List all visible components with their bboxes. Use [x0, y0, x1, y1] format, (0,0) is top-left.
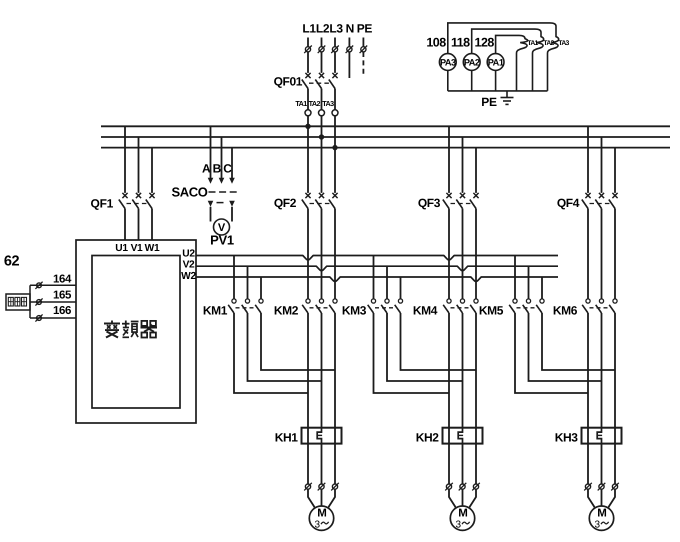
KM4 mechanical linkage (dashed) [451, 307, 472, 309]
circuit breaker QF3 pole 2 [462, 137, 464, 193]
KM6 mechanical linkage (dashed) [590, 307, 611, 309]
terminal L2 [319, 47, 324, 52]
svg-text:KM4: KM4 [413, 304, 438, 318]
voltmeter PV1 [214, 219, 230, 235]
wire N below terminal [348, 52, 350, 78]
ammeter loop 3 (PA1/TA1) top [496, 35, 519, 53]
motor 2 terminal 2 [460, 484, 465, 489]
wire KM1 pole 3 output [261, 313, 335, 370]
wire KM1 pole 1 output [234, 313, 308, 393]
svg-text:62: 62 [4, 254, 20, 270]
circuit breaker QF2 pole 1 [307, 126, 309, 193]
circuit breaker QF2 pole 3 [334, 148, 336, 193]
svg-text:TA3: TA3 [558, 40, 569, 47]
current transformer TA3 [332, 110, 338, 116]
circuit breaker QF01 pole 1 [307, 52, 309, 73]
wire motor 3 phase 3 lead [608, 489, 615, 507]
wire KH3 pole 3 passthrough [614, 428, 616, 444]
svg-text:QF2: QF2 [274, 196, 297, 210]
wire PA2 to bottom bus [471, 70, 473, 91]
svg-text:165: 165 [53, 290, 72, 302]
ammeter loop 1 (PA3/TA3) top [448, 23, 550, 54]
thermal relay KH1 heater element [317, 428, 321, 444]
wire PA1 to bottom bus [495, 70, 497, 91]
svg-text:N: N [346, 22, 355, 36]
contactor KM3 pole 1 [373, 256, 375, 299]
frequency converter inner box [92, 256, 180, 409]
contactor KM4 pole 2 [460, 299, 464, 303]
svg-text:164: 164 [53, 274, 72, 286]
terminal PE [361, 47, 366, 52]
contactor KM1 pole 2 [247, 266, 249, 299]
svg-text:M: M [458, 508, 468, 520]
ammeter PA3 [439, 54, 456, 71]
circuit breaker QF3 pole 1 [448, 126, 450, 193]
bus L1 [101, 125, 670, 127]
ammeter PA1 [487, 54, 504, 71]
junction dot L1 feed [305, 124, 310, 129]
QF2 mechanical linkage (dashed) [310, 203, 331, 205]
svg-text:118: 118 [451, 36, 470, 50]
svg-text:TA1: TA1 [527, 40, 538, 47]
pressure gauge text [8, 297, 13, 306]
svg-text:3: 3 [315, 520, 321, 531]
SACO output linkage (dashed) [217, 202, 228, 204]
wire motor 2 phase 1 lead [449, 489, 456, 507]
thermal relay KH3 box [582, 428, 622, 444]
svg-text:KM1: KM1 [203, 304, 228, 318]
svg-text:M: M [317, 508, 327, 520]
svg-text:U1: U1 [115, 243, 128, 254]
frequency converter text 变频器 [104, 323, 120, 325]
svg-text:TA1: TA1 [295, 99, 307, 108]
thermal relay KH3 heater element [597, 428, 601, 444]
svg-text:V1: V1 [131, 243, 143, 254]
junction dot L2 feed [319, 134, 324, 139]
motor 2 terminal 3 [473, 484, 478, 489]
bus L2 [101, 136, 670, 138]
current transformer TA2 (meter circuit) [533, 29, 544, 91]
wire motor 1 phase 3 lead [328, 489, 335, 507]
circuit breaker QF3 pole 3 [475, 148, 477, 193]
svg-text:U2: U2 [182, 249, 195, 260]
svg-text:KM2: KM2 [274, 304, 299, 318]
wire KH1 pole 1 to motor terminal [307, 444, 309, 484]
motor M1 [309, 506, 333, 530]
svg-text:TA2: TA2 [543, 40, 554, 47]
KM2 mechanical linkage (dashed) [310, 307, 331, 309]
current transformer TA1 (meter circuit) [517, 35, 528, 91]
wire KH2 pole 2 to motor terminal [462, 444, 464, 484]
svg-text:QF1: QF1 [91, 197, 114, 211]
contactor KM4 pole 3 [474, 299, 478, 303]
svg-text:L2: L2 [316, 22, 330, 36]
current transformer TA3 (meter circuit) [548, 23, 559, 91]
svg-text:PE: PE [357, 22, 373, 36]
motor 3 terminal 1 [585, 484, 590, 489]
contactor KM6 pole 1 [586, 299, 590, 303]
wire KM1 pole 2 output [248, 313, 322, 381]
wire 164 [30, 284, 76, 286]
contactor KM1 pole 1 [233, 256, 235, 299]
wire KH2 pole 3 to motor terminal [475, 444, 477, 484]
bus L3 [101, 147, 670, 149]
bus V2 (VFD output) with crossover dips [196, 266, 558, 270]
wire 165 [30, 301, 76, 303]
contactor KM3 pole 2 [386, 266, 388, 299]
wire KH1 pole 3 to motor terminal [334, 444, 336, 484]
motor 3 terminal 3 [612, 484, 617, 489]
svg-text:B: B [213, 162, 222, 176]
svg-text:PA2: PA2 [464, 57, 480, 67]
terminal on wire 165 [37, 300, 42, 305]
wire phase C tap [231, 148, 233, 180]
wire KM5 pole 1 output [515, 313, 588, 393]
motor 3 terminal 2 [599, 484, 604, 489]
motor M2 [450, 506, 474, 530]
svg-text:128: 128 [475, 36, 495, 50]
circuit breaker QF01 pole 2 [321, 52, 323, 73]
SACO output arrow right [229, 201, 235, 207]
svg-text:L1: L1 [302, 22, 316, 36]
svg-text:3: 3 [456, 520, 462, 531]
ground symbol [506, 91, 508, 98]
contactor KM3 pole 3 [400, 277, 402, 299]
wire KH2 pole 3 passthrough [475, 428, 477, 444]
wire phase B tap [221, 137, 223, 179]
wire L2 drop to terminal [321, 38, 323, 47]
svg-text:PV1: PV1 [210, 233, 234, 248]
wire KH3 pole 1 to motor terminal [587, 444, 589, 484]
terminal N [347, 47, 352, 52]
frequency converter outer box [76, 240, 196, 423]
svg-text:PA3: PA3 [440, 57, 456, 67]
contactor KM2 pole 2 [319, 299, 323, 303]
wire KH2 pole 1 to motor terminal [448, 444, 450, 484]
wire KM3 pole 2 output [387, 313, 463, 381]
wire KM5 pole 2 output [529, 313, 602, 381]
contactor KM6 pole 3 [613, 299, 617, 303]
wire KH3 pole 3 to motor terminal [614, 444, 616, 484]
svg-text:W1: W1 [145, 243, 160, 254]
SACO switch line (dashed) [209, 191, 238, 193]
svg-text:QF3: QF3 [418, 196, 441, 210]
svg-text:PE: PE [481, 95, 497, 109]
svg-text:QF4: QF4 [557, 196, 580, 210]
wire KM3 pole 3 output [401, 313, 477, 370]
KM3 mechanical linkage (dashed) [375, 307, 396, 309]
contactor KM2 pole 1 [306, 299, 310, 303]
wire motor 3 phase 1 lead [588, 489, 595, 507]
svg-text:KM5: KM5 [479, 304, 504, 318]
svg-text:TA2: TA2 [309, 99, 321, 108]
thermal relay KH2 heater element [458, 428, 462, 444]
svg-text:KH3: KH3 [555, 431, 579, 445]
contactor KM5 pole 1 [514, 256, 516, 299]
KM5 mechanical linkage (dashed) [517, 307, 538, 309]
svg-text:QF01: QF01 [274, 75, 303, 89]
wire KH1 pole 1 passthrough [307, 428, 309, 444]
svg-text:KH2: KH2 [416, 431, 440, 445]
contactor KM6 pole 2 [599, 299, 603, 303]
wire PE below terminal (dashed) [362, 52, 364, 77]
QF01 mechanical linkage (dashed) [309, 82, 330, 84]
ammeter PA2 [463, 54, 480, 71]
thermal relay KH2 box [443, 428, 483, 444]
circuit breaker QF1 pole 1 [124, 126, 126, 193]
current transformer TA2 [319, 110, 325, 116]
thermal relay KH1 box [302, 428, 342, 444]
SACO output arrow left [208, 201, 214, 207]
svg-text:V2: V2 [183, 260, 195, 271]
terminal on wire 164 [37, 283, 42, 288]
wire N drop to terminal [348, 38, 350, 47]
svg-text:C: C [223, 162, 232, 176]
wire 166 [30, 317, 76, 319]
circuit breaker QF2 pole 2 [321, 137, 323, 193]
wire PA3 to bottom bus [447, 70, 449, 91]
svg-text:108: 108 [426, 36, 446, 50]
motor M3 [589, 506, 613, 530]
svg-text:166: 166 [53, 305, 71, 317]
contactor KM5 pole 3 [541, 277, 543, 299]
junction dot L3 feed [332, 145, 337, 150]
svg-text:KH1: KH1 [275, 431, 299, 445]
svg-text:SACO: SACO [172, 185, 208, 200]
motor 1 terminal 3 [332, 484, 337, 489]
svg-text:W2: W2 [181, 271, 196, 282]
wire KH1 pole 3 passthrough [334, 428, 336, 444]
bus W2 (VFD output) with crossover dips [196, 277, 558, 281]
terminal L1 [305, 47, 310, 52]
wire L1 drop to terminal [307, 38, 309, 47]
terminal on wire 166 [37, 316, 42, 321]
contactor KM2 pole 3 [333, 299, 337, 303]
wire motor 1 phase 2 lead [321, 489, 323, 506]
QF3 mechanical linkage (dashed) [451, 203, 472, 205]
svg-text:KM3: KM3 [342, 304, 367, 318]
ammeter loop 2 (PA2/TA2) top [472, 29, 535, 53]
wire TA3 to bus [334, 116, 336, 148]
pressure gauge box [6, 294, 30, 310]
wire motor 2 phase 2 lead [462, 489, 464, 506]
meter circuit bottom bus [448, 90, 548, 92]
QF1 mechanical linkage (dashed) [127, 203, 148, 205]
wire KM5 pole 3 output [542, 313, 615, 370]
circuit breaker QF1 pole 2 [138, 137, 140, 193]
motor 2 terminal 1 [446, 484, 451, 489]
motor 1 terminal 1 [305, 484, 310, 489]
wire KH3 pole 2 to motor terminal [601, 444, 603, 484]
wire pressure gauge riser [29, 285, 31, 318]
bus U2 (VFD output) with crossover dips [196, 256, 558, 260]
wire KM3 pole 1 output [374, 313, 450, 393]
wire motor 1 phase 1 lead [308, 489, 315, 507]
wire L3 drop to terminal [334, 38, 336, 47]
circuit breaker QF4 pole 3 [614, 148, 616, 193]
svg-text:PA1: PA1 [488, 57, 504, 67]
terminal L3 [332, 47, 337, 52]
svg-text:TA3: TA3 [322, 99, 334, 108]
wire TA2 to bus [321, 116, 323, 137]
contactor KM1 pole 3 [260, 277, 262, 299]
wire KH3 pole 1 passthrough [587, 428, 589, 444]
svg-text:L3: L3 [329, 22, 343, 36]
wire KH1 pole 2 to motor terminal [321, 444, 323, 484]
circuit breaker QF4 pole 1 [587, 126, 589, 193]
wire PE drop to terminal (dashed) [362, 38, 364, 47]
wire KH2 pole 1 passthrough [448, 428, 450, 444]
svg-text:3: 3 [595, 520, 601, 531]
wire phase A tap [210, 126, 212, 179]
KM1 mechanical linkage (dashed) [236, 307, 257, 309]
QF4 mechanical linkage (dashed) [590, 203, 611, 205]
contactor KM5 pole 2 [528, 266, 530, 299]
circuit breaker QF1 pole 3 [151, 148, 153, 193]
wire motor 3 phase 2 lead [601, 489, 603, 506]
wire TA1 to bus [307, 116, 309, 127]
current transformer TA1 [305, 110, 311, 116]
circuit breaker QF01 pole 3 [334, 52, 336, 73]
wire motor 2 phase 3 lead [469, 489, 476, 507]
svg-text:M: M [597, 508, 607, 520]
svg-text:KM6: KM6 [553, 304, 578, 318]
motor 1 terminal 2 [319, 484, 324, 489]
circuit breaker QF4 pole 2 [601, 137, 603, 193]
contactor KM4 pole 1 [447, 299, 451, 303]
